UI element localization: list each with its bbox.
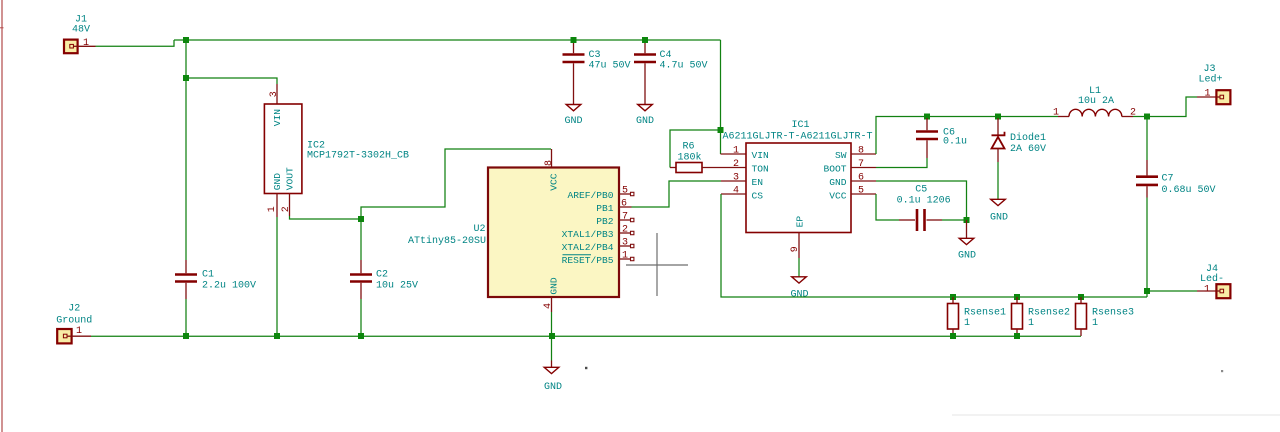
junction ground rail Rsense1 [950, 333, 956, 339]
svg-text:6: 6 [621, 199, 627, 210]
capacitor C2 [350, 219, 372, 299]
U2 pin 6 PB1 lead [619, 206, 632, 208]
cursor crosshair [626, 233, 688, 296]
wire U2 GND to rail and ground [551, 312, 553, 361]
IC2 pin 1 lead [276, 194, 278, 218]
resistor Rsense1 [948, 297, 959, 336]
wire node to J3 [1147, 97, 1197, 117]
svg-text:1: 1 [1053, 108, 1059, 119]
svg-text:0.1u 1206: 0.1u 1206 [897, 195, 951, 206]
junction VOUT node [358, 216, 364, 222]
U2 ground symbol lead [551, 361, 553, 368]
ground symbol U2 [544, 367, 559, 373]
ground symbol below C4 [638, 105, 653, 111]
svg-text:1: 1 [1204, 285, 1210, 296]
U2 pin 2 XTAL1/PB3 [619, 231, 634, 234]
svg-text:GND: GND [549, 277, 560, 295]
U2 pin 4 GND lead [551, 297, 553, 312]
wire L1 to C7 node [1133, 116, 1147, 118]
wire to IC2 VIN [186, 78, 277, 84]
junction C4 top [642, 37, 648, 43]
wire VOUT node to U2 VCC [361, 149, 551, 219]
svg-text:4: 4 [733, 186, 739, 197]
junction ground rail Rsense2 [1014, 333, 1020, 339]
svg-text:5: 5 [622, 186, 628, 197]
wire EP to ground [798, 258, 800, 277]
U2 pin 1 RESET/PB5 [619, 257, 634, 260]
IC1 pin 8 SW lead [851, 153, 876, 155]
capacitor C7 [1136, 160, 1158, 198]
J4 pin 1 lead [1197, 290, 1216, 292]
svg-text:EN: EN [752, 177, 764, 188]
svg-text:GND: GND [958, 251, 976, 262]
junction diode top [995, 114, 1001, 120]
junction rail U2 GND [549, 333, 555, 339]
diode Diode1 [992, 118, 1005, 162]
svg-text:7: 7 [858, 159, 864, 170]
svg-text:0.68u 50V: 0.68u 50V [1162, 185, 1216, 196]
wire VOUT to C2 node [290, 216, 362, 219]
svg-text:GND: GND [272, 173, 283, 191]
wire VCC pin to C5 left [876, 194, 899, 220]
U2 pin 5 AREF/PB0 [619, 192, 634, 195]
ground symbol EP [792, 277, 807, 283]
wire ground rail [91, 335, 1081, 337]
svg-text:1: 1 [964, 318, 970, 329]
svg-text:2: 2 [622, 225, 628, 236]
wire C2 to ground rail [360, 299, 362, 336]
svg-text:0.1u: 0.1u [943, 137, 967, 148]
svg-text:GND: GND [564, 116, 582, 127]
svg-text:1: 1 [76, 326, 82, 337]
svg-text:A6211GLJTR-T-A6211GLJTR-T: A6211GLJTR-T-A6211GLJTR-T [723, 131, 873, 142]
wire C6 bottom to BOOT [876, 158, 927, 168]
converter IC1 body [746, 143, 851, 233]
junction C5 right [964, 217, 970, 223]
IC1 pin 9 EP lead [798, 233, 800, 259]
svg-text:8: 8 [858, 146, 864, 157]
svg-text:GND: GND [636, 116, 654, 127]
junction IC1 VIN node [718, 127, 724, 133]
svg-text:J3: J3 [1203, 64, 1215, 75]
wire to J4 [1147, 290, 1197, 292]
U2 pin 8 VCC lead [551, 149, 553, 168]
svg-text:GND: GND [790, 289, 808, 300]
junction C1 branch [183, 75, 189, 81]
IC2 pin 3 lead [276, 84, 278, 104]
svg-text:Rsense3: Rsense3 [1092, 307, 1134, 318]
small dot artifact right [1221, 370, 1223, 372]
faint frame line bottom right [952, 414, 1280, 416]
svg-text:4: 4 [543, 303, 554, 309]
svg-text:C1: C1 [202, 270, 214, 281]
svg-text:Diode1: Diode1 [1010, 132, 1046, 144]
svg-text:BOOT: BOOT [823, 164, 846, 175]
junction sense rail Rsense1 [950, 294, 956, 300]
wire top rail [174, 39, 721, 41]
junction rail C1 [183, 333, 189, 339]
wire IC2 GND to ground rail [276, 217, 278, 336]
small dot artifact left [585, 367, 587, 369]
IC1 pin 6 GND lead [851, 180, 876, 182]
capacitor C6 [916, 118, 938, 158]
svg-text:VIN: VIN [272, 109, 283, 126]
capacitor C1 [175, 260, 197, 299]
resistor R6 [670, 163, 746, 173]
svg-text:Rsense1: Rsense1 [964, 307, 1006, 318]
svg-text:Led+: Led+ [1198, 74, 1222, 86]
inductor L1 [1058, 109, 1133, 116]
svg-text:TON: TON [752, 164, 769, 175]
svg-text:4.7u 50V: 4.7u 50V [660, 60, 708, 71]
wire J1 to top rail [96, 40, 175, 46]
svg-text:2A 60V: 2A 60V [1010, 144, 1046, 155]
svg-text:180k: 180k [678, 152, 702, 164]
ground symbol diode [991, 199, 1006, 205]
svg-text:U2: U2 [473, 224, 485, 235]
svg-text:7: 7 [622, 212, 628, 223]
svg-text:47u 50V: 47u 50V [589, 60, 631, 71]
svg-text:3: 3 [733, 173, 739, 184]
svg-text:SW: SW [835, 150, 847, 161]
svg-text:VCC: VCC [829, 191, 847, 202]
wire C1 to ground rail [185, 299, 187, 336]
junction sense rail Rsense3 [1078, 294, 1084, 300]
U2 pin name RESET/PB5 with overline [562, 255, 614, 266]
capacitor C3 [563, 42, 585, 105]
voltage regulator IC2 body [264, 104, 302, 194]
svg-text:2: 2 [733, 159, 739, 170]
svg-text:1: 1 [1028, 318, 1034, 329]
svg-text:ATtiny85-20SU: ATtiny85-20SU [408, 235, 486, 247]
svg-text:C7: C7 [1162, 174, 1174, 185]
capacitor C5 [899, 209, 967, 231]
svg-text:1: 1 [622, 251, 628, 262]
junction rail C2 [358, 333, 364, 339]
svg-text:1: 1 [733, 146, 739, 157]
junction C6 top [924, 114, 930, 120]
svg-text:R6: R6 [683, 141, 695, 152]
svg-text:6: 6 [858, 173, 864, 184]
svg-text:10u 2A: 10u 2A [1078, 96, 1114, 107]
svg-text:48V: 48V [72, 25, 90, 36]
IC1 pin 3 lead [721, 180, 746, 182]
wire C7 down to sense rail [1146, 198, 1148, 298]
svg-text:C5: C5 [915, 185, 927, 196]
U2 pin 7 PB2 [619, 218, 634, 221]
svg-text:Led-: Led- [1200, 273, 1224, 285]
svg-text:Rsense2: Rsense2 [1028, 307, 1070, 318]
junction top-left [183, 37, 189, 43]
wire node to IC1 VIN [720, 130, 722, 154]
resistor Rsense3 [1076, 297, 1087, 336]
wire CS to sense rail [721, 194, 1147, 297]
wire PB1 to IC1 EN [632, 181, 722, 207]
wire main left vertical [185, 40, 187, 260]
junction J4 branch [1144, 288, 1150, 294]
svg-text:1: 1 [83, 38, 89, 49]
junction rail IC2 GND [274, 333, 280, 339]
svg-text:3: 3 [269, 91, 280, 97]
IC1 pin 4 lead [721, 193, 746, 195]
svg-text:C2: C2 [376, 269, 388, 280]
ground symbol below C3 [566, 105, 581, 111]
svg-text:10u 25V: 10u 25V [376, 280, 418, 291]
svg-text:VOUT: VOUT [285, 167, 296, 190]
junction L1 output node [1144, 114, 1150, 120]
svg-text:VCC: VCC [549, 173, 560, 191]
connector J2 [57, 329, 71, 343]
svg-text:GND: GND [829, 177, 847, 188]
C5 ground lead [966, 220, 968, 238]
IC1 pin 7 BOOT lead [851, 167, 876, 169]
svg-text:RESET/PB5: RESET/PB5 [562, 255, 614, 266]
svg-text:PB2: PB2 [596, 216, 614, 227]
wire node down to C7 [1146, 117, 1148, 161]
svg-text:PB1: PB1 [596, 203, 614, 214]
J1 pin 1 lead [78, 45, 96, 47]
connector J1 [64, 40, 78, 54]
IC1 pin 5 VCC lead [851, 193, 876, 195]
svg-text:9: 9 [790, 246, 801, 252]
svg-text:1: 1 [1092, 318, 1098, 329]
svg-text:EP: EP [795, 216, 806, 228]
svg-text:AREF/PB0: AREF/PB0 [567, 190, 613, 201]
svg-text:5: 5 [858, 186, 864, 197]
svg-text:Ground: Ground [56, 315, 92, 327]
connector J4 [1216, 284, 1230, 298]
svg-text:1: 1 [1204, 89, 1210, 100]
junction sense rail Rsense2 [1014, 294, 1020, 300]
junction C3 top [571, 37, 577, 43]
wire GND pin to C5 right [876, 181, 967, 220]
connector J3 [1216, 90, 1230, 104]
svg-text:GND: GND [990, 212, 1008, 223]
svg-text:3: 3 [622, 238, 628, 249]
capacitor C4 [634, 42, 656, 105]
svg-text:GND: GND [544, 382, 562, 393]
svg-text:J2: J2 [68, 303, 80, 314]
svg-text:MCP1792T-3302H_CB: MCP1792T-3302H_CB [307, 151, 409, 162]
IC1 pin 1 lead [721, 153, 747, 155]
sheet border left line [1, 0, 3, 432]
wire diode to ground [997, 162, 999, 199]
sheet border tick [0, 27, 4, 29]
svg-text:1: 1 [267, 206, 278, 212]
svg-text:XTAL1/PB3: XTAL1/PB3 [562, 229, 614, 240]
svg-text:IC1: IC1 [792, 120, 810, 131]
wire SW up to LED rail [876, 117, 1058, 155]
U2 pin 3 XTAL2/PB4 [619, 244, 634, 247]
svg-text:2.2u 100V: 2.2u 100V [202, 281, 256, 292]
svg-text:8: 8 [544, 160, 555, 166]
svg-text:2: 2 [281, 206, 292, 212]
svg-text:XTAL2/PB4: XTAL2/PB4 [562, 242, 614, 253]
IC2 pin 2 lead [289, 194, 291, 217]
resistor Rsense2 [1012, 297, 1023, 336]
svg-text:CS: CS [752, 191, 764, 202]
J2 pin 1 lead [72, 335, 91, 337]
svg-text:VIN: VIN [752, 150, 769, 161]
wire top rail drop to IC1 node [720, 40, 722, 130]
wire node to R6 left [670, 130, 721, 168]
microcontroller U2 body [488, 168, 619, 298]
J3 pin 1 lead [1197, 96, 1216, 98]
ground symbol C5 [959, 238, 974, 244]
